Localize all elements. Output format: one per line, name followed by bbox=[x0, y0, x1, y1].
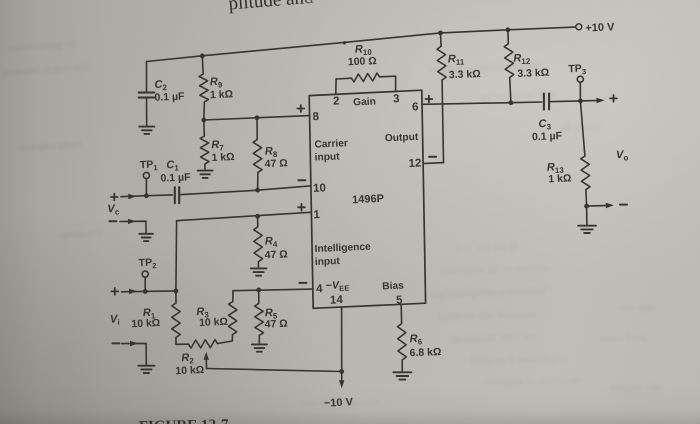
wire pin 6 to C3 bbox=[422, 102, 542, 104]
test point TP2 terminal bbox=[142, 271, 148, 277]
wire pin 14 down to -10V node bbox=[341, 307, 343, 371]
svg-text:1 kΩ: 1 kΩ bbox=[211, 151, 234, 164]
svg-text:12: 12 bbox=[408, 157, 421, 170]
capacitor C1 bbox=[174, 187, 176, 203]
wire pin 2 stub up bbox=[335, 79, 337, 94]
wire C2 to ground bbox=[146, 98, 148, 126]
label plus of carrier source Vc bbox=[111, 196, 118, 198]
wire carrier source plus lead to C1 bbox=[121, 195, 172, 197]
arrowhead -10V bbox=[339, 380, 344, 388]
node junction R4 top on pin 1 wire bbox=[255, 214, 260, 219]
potentiometer R2 10k horizontal bbox=[176, 343, 189, 345]
svg-text:plitude and: plitude and bbox=[228, 0, 315, 14]
svg-text:8: 8 bbox=[312, 111, 319, 123]
arrowhead on Vi plus lead bbox=[129, 289, 137, 294]
svg-text:Vc: Vc bbox=[107, 203, 120, 217]
label plus at pin 6 bbox=[426, 98, 433, 100]
svg-text:Vi: Vi bbox=[110, 313, 120, 327]
wire R13 node to ground bbox=[586, 206, 588, 225]
svg-text:TP1: TP1 bbox=[140, 158, 159, 172]
node junction on rail at R12 top bbox=[506, 27, 511, 32]
test point TP3 terminal bbox=[577, 76, 583, 82]
svg-text:10 kΩ: 10 kΩ bbox=[175, 364, 204, 377]
ground below Vi minus bbox=[138, 365, 154, 367]
svg-text:R11: R11 bbox=[448, 53, 465, 67]
svg-text:14: 14 bbox=[330, 294, 344, 307]
ground below R5 bbox=[252, 343, 267, 345]
wire R2 wiper to -10V node bbox=[207, 369, 342, 372]
wire pin 12 to R11 bottom corner bbox=[423, 163, 443, 164]
svg-text:Carrier: Carrier bbox=[314, 138, 348, 150]
wire C3 to output plus bbox=[549, 100, 600, 101]
wire pin 4 from R3 corner to IC bbox=[233, 289, 313, 291]
svg-text:Output: Output bbox=[385, 132, 419, 144]
svg-text:100 Ω: 100 Ω bbox=[348, 55, 377, 68]
wire pin 3 stub up bbox=[395, 76, 397, 91]
resistor R5 47 bbox=[258, 290, 260, 304]
resistor R3 10k bbox=[228, 302, 237, 335]
label minus at pin 10 bbox=[298, 179, 305, 181]
resistor R13 1k bbox=[580, 101, 585, 156]
svg-text:3.3 kΩ: 3.3 kΩ bbox=[449, 68, 481, 81]
svg-text:47 Ω: 47 Ω bbox=[264, 157, 287, 170]
svg-text:TP2: TP2 bbox=[138, 256, 156, 270]
svg-text:10 kΩ: 10 kΩ bbox=[199, 316, 228, 329]
label minus of carrier source Vc bbox=[109, 220, 116, 222]
svg-text:Vo: Vo bbox=[616, 149, 629, 163]
svg-text:input: input bbox=[315, 256, 341, 268]
svg-text:10: 10 bbox=[313, 182, 326, 195]
wire pin 8 from R9/R7 node to IC bbox=[204, 116, 310, 120]
arrowhead on Vi minus lead bbox=[130, 341, 138, 346]
wire intelligence source plus lead to R1 node bbox=[122, 290, 176, 293]
svg-text:1: 1 bbox=[313, 209, 320, 221]
resistor R1 10k bbox=[175, 291, 177, 303]
resistor R11 3.3k bbox=[440, 33, 443, 46]
svg-text:TP3: TP3 bbox=[568, 62, 586, 76]
capacitor C3 bbox=[543, 94, 545, 110]
svg-text:3: 3 bbox=[393, 93, 400, 105]
resistor R9 1k bbox=[201, 56, 204, 74]
wiper arrow of R2 bbox=[205, 355, 207, 369]
node junction R13 bottom bbox=[584, 204, 589, 209]
test point TP1 terminal bbox=[143, 172, 149, 178]
node junction -10V node bbox=[339, 369, 344, 374]
label plus of intelligence source Vi bbox=[111, 290, 118, 292]
wire top +10V supply rail bbox=[147, 27, 576, 61]
svg-text:6.8 kΩ: 6.8 kΩ bbox=[409, 346, 441, 359]
wire -10V arrow stem bbox=[341, 372, 343, 384]
svg-text:Intelligence: Intelligence bbox=[314, 242, 371, 255]
wire C2 branch from rail corner down bbox=[146, 62, 148, 93]
svg-text:input: input bbox=[314, 151, 340, 163]
wire TP2 stem bbox=[144, 277, 146, 291]
svg-text:R6: R6 bbox=[409, 333, 423, 347]
svg-text:5: 5 bbox=[396, 294, 403, 306]
wire TP3 stem bbox=[579, 82, 581, 101]
svg-text:−10 V: −10 V bbox=[324, 396, 354, 409]
arrowhead output plus bbox=[596, 98, 604, 103]
svg-text:Gain: Gain bbox=[353, 96, 376, 108]
svg-text:+10 V: +10 V bbox=[585, 21, 615, 34]
wire C1 to pin 10 of IC bbox=[179, 186, 310, 195]
label minus of intelligence source Vi bbox=[112, 342, 119, 344]
node junction on rail at R9 top bbox=[200, 54, 205, 59]
label minus at pin 4 bbox=[299, 282, 306, 284]
capacitor C2 bbox=[139, 91, 155, 93]
label minus at pin 12 bbox=[429, 156, 436, 158]
svg-text:1496P: 1496P bbox=[352, 193, 384, 206]
terminal +10 V bbox=[576, 24, 582, 30]
resistor R6 6.8k bbox=[398, 324, 407, 360]
wire intelligence source minus lead bbox=[122, 343, 146, 364]
node junction TP2 on Vi wire bbox=[143, 289, 148, 294]
svg-text:1 kΩ: 1 kΩ bbox=[548, 172, 571, 185]
node junction R1 top / vertical bbox=[174, 289, 179, 294]
node junction R5 top on pin 4 wire bbox=[256, 288, 261, 293]
arrowhead output minus bbox=[606, 203, 614, 208]
wire TP1 stem bbox=[145, 178, 147, 195]
svg-text:47 Ω: 47 Ω bbox=[264, 318, 287, 331]
resistor R4 47 bbox=[257, 216, 259, 226]
node junction R8 top on pin 8 wire bbox=[255, 115, 260, 120]
ground below R4 bbox=[251, 267, 267, 269]
svg-text:C1: C1 bbox=[166, 159, 180, 173]
svg-text:10 kΩ: 10 kΩ bbox=[131, 317, 160, 330]
svg-text:47 Ω: 47 Ω bbox=[264, 248, 287, 261]
node junction R8 bottom on pin 10 wire bbox=[255, 188, 260, 193]
node junction R12 bottom on pin 6 wire bbox=[509, 100, 514, 105]
resistor R7 1k bbox=[203, 120, 206, 136]
node junction on rail at R11 top bbox=[438, 31, 443, 36]
svg-text:FIGURE 12-7: FIGURE 12-7 bbox=[139, 417, 229, 424]
resistor R10 100 ohm bridge bbox=[336, 77, 351, 80]
svg-text:1 kΩ: 1 kΩ bbox=[210, 88, 233, 101]
svg-text:0.1 µF: 0.1 µF bbox=[154, 91, 185, 104]
arrowhead on Vc plus lead bbox=[128, 194, 136, 199]
ground below Vc minus bbox=[139, 233, 153, 235]
ground below R7 bbox=[198, 170, 213, 172]
svg-text:0.1 µF: 0.1 µF bbox=[160, 171, 191, 184]
op-amp IC U1 1496P body bbox=[309, 90, 425, 308]
svg-text:R12: R12 bbox=[513, 52, 531, 66]
ground below C2 bbox=[139, 126, 154, 128]
wire vertical from pin 1 wire down to R1 node bbox=[175, 221, 178, 291]
node junction TP1 on pin 10 wire bbox=[144, 193, 149, 198]
label plus at output bbox=[610, 97, 617, 99]
svg-text:6: 6 bbox=[412, 101, 419, 113]
svg-text:4: 4 bbox=[316, 283, 323, 295]
node junction smudge on rail bbox=[343, 41, 346, 44]
label minus at output bbox=[620, 204, 627, 206]
node junction TP3 on output wire bbox=[578, 99, 583, 104]
ground below R6 bbox=[393, 371, 411, 373]
wire carrier source minus lead bbox=[120, 221, 146, 233]
svg-text:0.1 µF: 0.1 µF bbox=[532, 130, 563, 143]
node junction R9/R7/pin8 bbox=[201, 118, 206, 123]
wire pin 5 stub to R6 bbox=[400, 304, 402, 323]
resistor R8 47 bbox=[256, 118, 258, 140]
svg-text:R4: R4 bbox=[265, 235, 279, 249]
wire pin 1 from left vertical to IC bbox=[177, 212, 311, 220]
label plus at pin 8 bbox=[297, 108, 304, 110]
svg-text:2: 2 bbox=[333, 95, 340, 107]
svg-text:3.3 kΩ: 3.3 kΩ bbox=[517, 67, 549, 80]
svg-text:Bias: Bias bbox=[382, 280, 404, 292]
label plus at pin 1 bbox=[298, 206, 305, 208]
ground below output bbox=[578, 225, 596, 227]
arrowhead on Vc minus lead bbox=[128, 219, 136, 224]
svg-text:−VEE: −VEE bbox=[326, 279, 350, 294]
wire output minus arrow bbox=[587, 204, 610, 207]
resistor R12 3.3k bbox=[507, 30, 509, 44]
